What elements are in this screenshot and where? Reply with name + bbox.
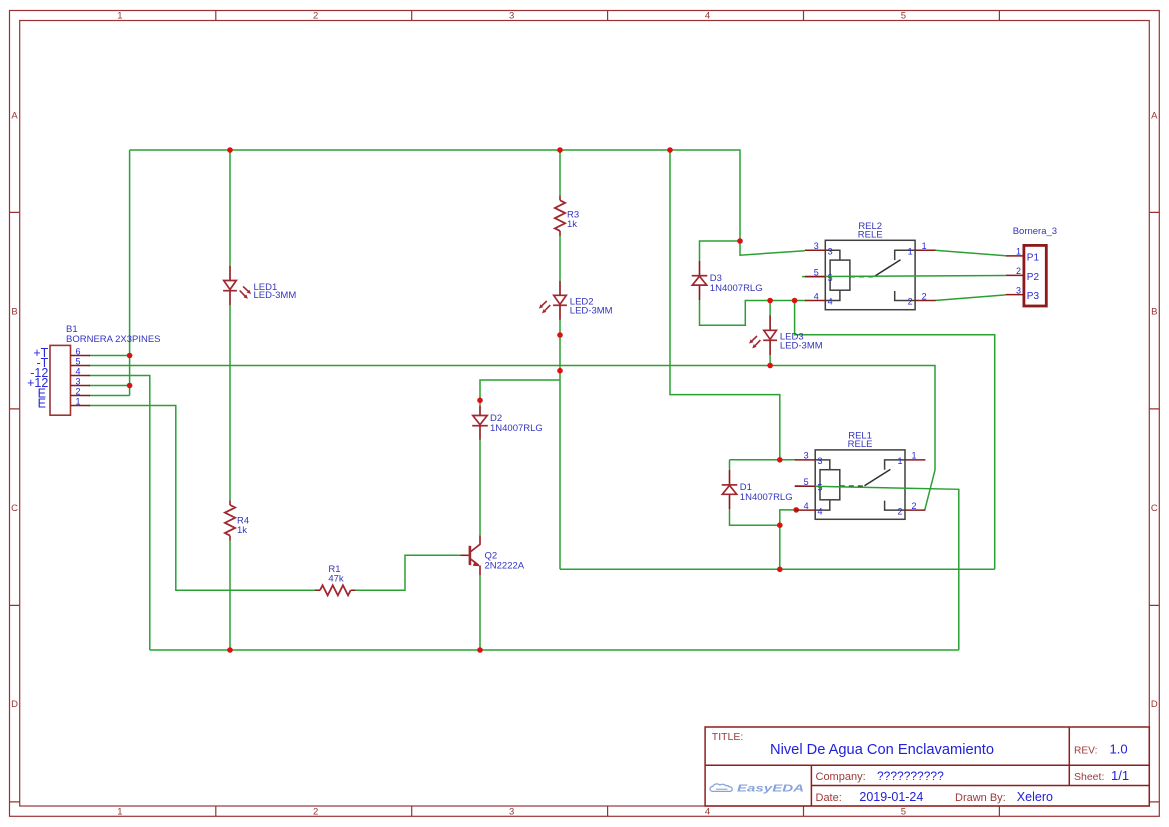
svg-text:P1: P1 <box>1027 253 1040 264</box>
diode D3 1N4007RLG <box>692 261 763 300</box>
svg-text:2: 2 <box>1016 266 1021 276</box>
node LED3 bottom / sensor bus <box>767 363 773 369</box>
svg-text:2: 2 <box>908 297 913 307</box>
svg-text:A: A <box>11 110 18 121</box>
wire B1 pin5 sensor bus <box>89 366 935 510</box>
Bornera_3 pin names P1 P2 P3 <box>1027 253 1040 303</box>
svg-text:4: 4 <box>814 291 819 301</box>
svg-text:D: D <box>1151 699 1158 710</box>
resistor R4 1k <box>225 500 249 540</box>
wire R1 to Q2 base <box>356 555 461 590</box>
svg-text:P2: P2 <box>1027 272 1040 283</box>
svg-text:1: 1 <box>117 10 122 21</box>
REL2 pin numbers <box>814 241 927 307</box>
node top bus / x670 drop <box>667 147 673 153</box>
svg-text:1k: 1k <box>567 219 577 230</box>
node REL1 pin4 <box>793 507 799 513</box>
svg-text:1k: 1k <box>237 525 247 536</box>
svg-text:2: 2 <box>912 501 917 511</box>
svg-text:2: 2 <box>897 506 902 516</box>
node D1 bottom <box>777 522 783 528</box>
B1 pins 6-1 <box>71 356 91 406</box>
wire REL2 pin5 to P2 (over symbol) <box>795 276 1006 651</box>
coil <box>820 470 840 500</box>
svg-text:A: A <box>1151 110 1158 121</box>
svg-text:??????????: ?????????? <box>877 769 944 783</box>
node top bus corner D3/REL2 <box>737 238 743 244</box>
svg-text:C: C <box>1151 503 1158 514</box>
svg-text:3: 3 <box>814 241 819 251</box>
switch <box>840 485 864 487</box>
wire LED3 top <box>769 301 771 316</box>
svg-text:2019-01-24: 2019-01-24 <box>859 790 923 804</box>
svg-text:5: 5 <box>901 807 906 818</box>
node top bus / LED1 column <box>227 147 233 153</box>
wire REL1 pin3 link to D1 <box>730 459 797 461</box>
svg-text:RELE: RELE <box>848 439 873 450</box>
svg-text:4: 4 <box>804 501 809 511</box>
svg-text:D: D <box>11 699 18 710</box>
svg-text:2N2222A: 2N2222A <box>485 560 525 571</box>
svg-text:RELE: RELE <box>858 230 883 241</box>
wire D3 bottom to REL2 pin4 <box>700 300 807 325</box>
wire B1 pin1 to R1 <box>89 406 315 591</box>
wire REL2 pin4 branch to coil bus <box>795 301 995 570</box>
diode D1 1N4007RLG <box>722 470 793 509</box>
node bottom bus / R4 <box>227 647 233 653</box>
node D2 anode <box>477 398 483 404</box>
REL1 pin numbers <box>804 451 917 517</box>
svg-text:Drawn By:: Drawn By: <box>955 792 1006 804</box>
node B1 pin3 <box>127 383 133 389</box>
svg-text:1: 1 <box>912 451 917 461</box>
svg-text:1: 1 <box>1016 247 1021 257</box>
svg-text:3: 3 <box>818 456 823 466</box>
svg-text:Sheet:: Sheet: <box>1074 771 1104 783</box>
EasyEDA logo <box>710 784 732 791</box>
svg-text:LED-3MM: LED-3MM <box>780 340 823 351</box>
svg-text:Xelero: Xelero <box>1017 790 1053 804</box>
wire REL2 pin3 link <box>740 241 805 255</box>
svg-text:E: E <box>38 396 46 410</box>
node REL1 pin3 / D1 <box>777 457 783 463</box>
B1 pin numbers <box>76 347 81 407</box>
wire D2 to Q2 collector <box>479 440 481 535</box>
wire x670 drop to REL1 pin3 <box>670 150 780 460</box>
node REL2 pin4 branch <box>792 298 798 304</box>
svg-text:3: 3 <box>509 10 514 21</box>
node coil bus / D1 column <box>777 567 783 573</box>
LED2 LED-3MM <box>539 281 613 320</box>
wire LED3 bottom <box>769 355 771 365</box>
wire B1 pin4 down to bottom bus <box>89 376 150 651</box>
svg-text:C: C <box>11 503 18 514</box>
svg-text:REV:: REV: <box>1074 745 1097 756</box>
svg-text:1.0: 1.0 <box>1110 741 1128 756</box>
svg-text:4: 4 <box>818 506 823 516</box>
svg-text:Nivel De Agua Con Enclavamient: Nivel De Agua Con Enclavamiento <box>770 741 994 758</box>
svg-text:1: 1 <box>922 241 927 251</box>
svg-text:2: 2 <box>313 807 318 818</box>
transistor Q2 2N2222A <box>461 535 525 575</box>
svg-text:5: 5 <box>818 482 823 492</box>
svg-text:2: 2 <box>313 10 318 21</box>
svg-text:4: 4 <box>828 297 833 307</box>
wire coil bus y570 <box>560 568 995 570</box>
wire left drop to B1 pins <box>129 150 131 396</box>
LED1 LED-3MM <box>223 266 296 305</box>
resistor R1 47k <box>315 564 356 595</box>
svg-text:1: 1 <box>908 247 913 257</box>
relay REL1 RELE <box>795 430 926 519</box>
wire R3/LED2 column <box>559 150 561 569</box>
svg-text:1: 1 <box>897 456 902 466</box>
svg-text:5: 5 <box>828 273 833 283</box>
svg-text:4: 4 <box>76 367 81 377</box>
svg-text:Bornera_3: Bornera_3 <box>1013 226 1057 237</box>
REL2/REL1 pin5 stubs redrawn over wire <box>795 277 826 487</box>
wire Q2 emitter to bottom bus <box>479 575 481 650</box>
svg-text:3: 3 <box>828 247 833 257</box>
svg-text:Company:: Company: <box>816 771 866 783</box>
svg-text:3: 3 <box>509 807 514 818</box>
LED3 LED-3MM <box>749 315 823 355</box>
node LED2 lower wire <box>557 332 563 338</box>
Bornera_3 pin numbers <box>1016 247 1021 296</box>
wire D1 bottom loop to REL1 pin4 <box>730 509 797 569</box>
wire REL2 pin2 to P3 <box>935 295 1006 301</box>
svg-text:LED-3MM: LED-3MM <box>254 290 297 301</box>
node bottom bus / Q2 emitter <box>477 647 483 653</box>
node B1 pin6 <box>127 353 133 359</box>
svg-text:BORNERA 2X3PINES: BORNERA 2X3PINES <box>66 334 161 345</box>
wire D1 top <box>729 460 731 470</box>
diode D2 1N4007RLG <box>472 406 543 440</box>
svg-text:4: 4 <box>705 10 710 21</box>
svg-text:1N4007RLG: 1N4007RLG <box>740 492 793 503</box>
pin stubs <box>805 250 936 300</box>
svg-text:Date:: Date: <box>816 792 842 804</box>
coil <box>830 260 850 290</box>
wire D3 top branch <box>700 241 741 261</box>
svg-text:3: 3 <box>76 377 81 387</box>
svg-text:5: 5 <box>901 10 906 21</box>
wire REL2 pin1 to P1 <box>935 250 1006 255</box>
wire B1 pin3 <box>89 385 130 387</box>
connector Bornera_3 <box>1006 226 1057 306</box>
wire LED1/R4 column <box>229 150 231 650</box>
resistor R3 1k <box>555 195 579 236</box>
svg-text:P3: P3 <box>1027 291 1040 302</box>
relay REL2 RELE <box>805 221 936 310</box>
net labels +T -T -12 +12 E E <box>27 346 49 410</box>
title block <box>705 727 1149 806</box>
svg-text:B: B <box>1151 307 1157 318</box>
svg-text:1N4007RLG: 1N4007RLG <box>490 423 543 434</box>
node top bus / R3 column <box>557 147 563 153</box>
svg-text:1: 1 <box>76 397 81 407</box>
wire REL1 pin5 to bottom bus (over symbol) <box>795 486 959 650</box>
svg-text:1: 1 <box>117 807 122 818</box>
svg-text:LED-3MM: LED-3MM <box>570 305 613 316</box>
connector B1 BORNERA 2X3PINES <box>27 324 160 415</box>
svg-text:47k: 47k <box>328 574 344 585</box>
svg-text:5: 5 <box>76 357 81 367</box>
svg-text:1N4007RLG: 1N4007RLG <box>710 283 763 294</box>
svg-text:1/1: 1/1 <box>1111 768 1129 783</box>
node LED2/D2 branch <box>557 368 563 374</box>
wire bottom ground bus <box>150 649 959 651</box>
wire B1 pin6 <box>89 355 130 357</box>
svg-text:6: 6 <box>76 347 81 357</box>
switch <box>850 276 874 278</box>
svg-text:2: 2 <box>76 387 81 397</box>
svg-text:3: 3 <box>1016 285 1021 295</box>
node LED3 top / REL2 pin4 <box>767 298 773 304</box>
svg-text:2: 2 <box>922 291 927 301</box>
svg-text:TITLE:: TITLE: <box>712 731 744 743</box>
wire top supply bus <box>130 150 740 241</box>
svg-text:4: 4 <box>705 807 710 818</box>
wire D2 branch <box>480 380 560 406</box>
pin stubs <box>795 460 926 510</box>
svg-text:EasyEDA: EasyEDA <box>737 784 804 795</box>
wire B1 pin2 <box>89 395 130 397</box>
svg-text:3: 3 <box>804 451 809 461</box>
B1 reference and value labels <box>66 324 161 345</box>
svg-text:B: B <box>11 307 17 318</box>
